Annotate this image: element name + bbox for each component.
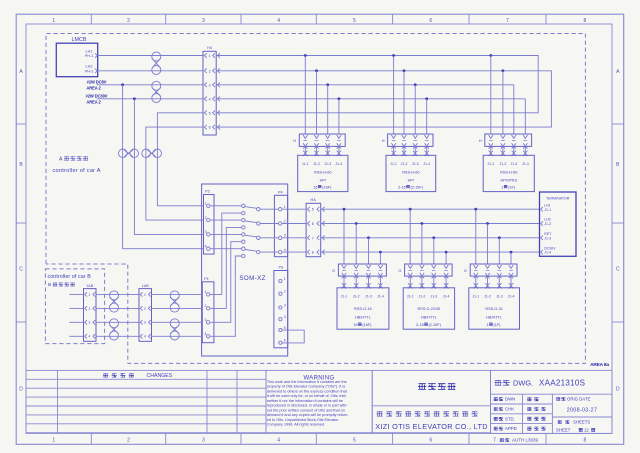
- svg-text:1: 1: [487, 323, 489, 327]
- svg-text:This work and the information: This work and the information it contain…: [267, 380, 347, 384]
- connector H group 3: [479, 134, 532, 156]
- svg-text:J1-4: J1-4: [423, 162, 430, 166]
- svg-text:property of Otis Elevator Comp: property of Otis Elevator Company ("Otis…: [267, 385, 345, 389]
- title block date and sheet cells: [556, 396, 597, 432]
- svg-text:1: 1: [284, 277, 286, 281]
- wire DC8V to H4 pin3: [97, 84, 203, 86]
- svg-text:1: 1: [284, 205, 286, 209]
- svg-text:G: G: [464, 269, 467, 273]
- drawing title cell: parallel circuit: [372, 370, 490, 432]
- wire bus LH1 (H4-1 right, wraps to H4-5): [216, 56, 538, 113]
- twisted pair car-B rows 3-4 (right): [170, 319, 179, 328]
- wire P1-1 to SW1 lower throw: [210, 213, 242, 294]
- connector G group 2: [398, 264, 452, 289]
- svg-text:P1: P1: [204, 277, 209, 281]
- dashed boundary of controller of car B: [45, 269, 104, 344]
- svg-text:3: 3: [284, 234, 286, 238]
- svg-text:7: 7: [312, 236, 314, 240]
- wire LH1 from LMCB to H4 pin1: [98, 55, 203, 57]
- svg-text:J1-1: J1-1: [341, 295, 348, 299]
- svg-text:C: C: [616, 267, 620, 273]
- svg-text:3: 3: [284, 303, 286, 307]
- block SOM-XZ: [202, 184, 288, 356]
- svg-text:1: 1: [209, 54, 211, 58]
- svg-text:J1-2: J1-2: [499, 162, 506, 166]
- svg-text:HPV/PKS: HPV/PKS: [501, 178, 518, 182]
- svg-text:G: G: [398, 269, 401, 273]
- svg-text:6: 6: [429, 438, 432, 444]
- wire H4 pin6 internal to P2-2: [146, 127, 204, 220]
- svg-text:2: 2: [209, 69, 211, 73]
- svg-text:5: 5: [312, 208, 314, 212]
- svg-text:AREA 2: AREA 2: [86, 99, 101, 104]
- label controller of car A: [53, 156, 101, 174]
- svg-text:HPI: HPI: [408, 178, 414, 182]
- wire P1-4 to SW4 lower throw: [210, 256, 242, 336]
- svg-text:SHEET: SHEET: [556, 427, 571, 432]
- svg-text:(1F): (1F): [493, 323, 501, 327]
- twisted pair DC8V/DC30V: [152, 81, 161, 90]
- svg-text:2: 2: [144, 307, 146, 311]
- twisted pair LH1/LH2: [152, 52, 161, 61]
- svg-text:3: 3: [202, 18, 205, 24]
- svg-text:LH1: LH1: [544, 203, 550, 207]
- wire lower bus row 4 HA to TERMINATOR: [321, 251, 540, 253]
- svg-text:2-15: 2-15: [398, 186, 406, 190]
- changes record table: [26, 370, 266, 432]
- connector P1: [202, 277, 214, 343]
- svg-text:7: 7: [506, 18, 509, 24]
- switch SW4 (car A / car B transfer): [210, 247, 279, 258]
- svg-text:2: 2: [284, 290, 286, 294]
- svg-text:J1-1: J1-1: [472, 295, 479, 299]
- svg-text:H: H: [293, 139, 296, 143]
- device RSS-H-60 HPI 16F hall box 1: [298, 155, 348, 191]
- svg-text:3: 3: [89, 321, 91, 325]
- svg-text:J1-3: J1-3: [430, 295, 437, 299]
- svg-text:PH-1: PH-1: [85, 54, 94, 58]
- connector 1AB (machine room side): [139, 284, 202, 341]
- connector HA: [282, 198, 321, 257]
- twisted pair on DC8V/DC30V verticals: [119, 149, 128, 158]
- svg-text:2-15: 2-15: [416, 323, 424, 327]
- svg-text:LH1: LH1: [86, 49, 93, 53]
- svg-text:C: C: [19, 267, 23, 273]
- svg-text:J1-2: J1-2: [353, 295, 360, 299]
- svg-text:6: 6: [284, 339, 286, 343]
- svg-text:J1-3: J1-3: [365, 295, 372, 299]
- svg-text:delivered to others on the exp: delivered to others on the express condi…: [267, 389, 348, 393]
- wire P1-3 to SW3 lower throw: [210, 242, 242, 323]
- svg-text:J1-2: J1-2: [401, 162, 408, 166]
- svg-text:P3: P3: [278, 265, 283, 269]
- svg-text:Company 1998. All rights rese: Company 1998. All rights reserved.: [267, 423, 325, 427]
- svg-text:1: 1: [501, 186, 503, 190]
- svg-text:4: 4: [209, 97, 211, 101]
- label #2W DC30V AREA 2: [86, 94, 108, 105]
- svg-text:P4: P4: [278, 190, 283, 194]
- connector P2: [204, 189, 215, 254]
- twisted pair car-B rows 1-2 (right): [170, 291, 179, 300]
- svg-text:4: 4: [277, 438, 280, 444]
- svg-text:2: 2: [89, 307, 91, 311]
- svg-text:D: D: [19, 387, 23, 393]
- svg-text:TERMINATOR: TERMINATOR: [546, 196, 570, 200]
- svg-text:CHANGES: CHANGES: [147, 373, 173, 379]
- svg-text:8: 8: [312, 251, 314, 255]
- svg-text:J1-4: J1-4: [508, 295, 515, 299]
- twisted pair on LH1/LH2 verticals: [142, 149, 151, 158]
- svg-text:4: 4: [284, 248, 286, 252]
- svg-text:controller of car B: controller of car B: [48, 274, 92, 280]
- block LMCB (landing/group controller): [56, 37, 97, 76]
- svg-text:2: 2: [127, 438, 130, 444]
- svg-text:reproduced or disclosed, in wh: reproduced or disclosed, in whole or in …: [267, 404, 348, 408]
- connector P3: [274, 265, 288, 348]
- svg-text:5: 5: [209, 111, 211, 115]
- svg-text:DWG.: DWG.: [513, 378, 533, 387]
- svg-text:HB/HTTL: HB/HTTL: [486, 316, 502, 320]
- svg-text:P2: P2: [205, 189, 210, 193]
- svg-text:#2W DC30V: #2W DC30V: [86, 94, 108, 99]
- svg-text:1: 1: [89, 293, 91, 297]
- jumper P3 pin5 to pin6: [282, 330, 304, 343]
- svg-text:3: 3: [202, 438, 205, 444]
- svg-text:B: B: [48, 282, 51, 288]
- svg-text:demand it and any copies will: demand it and any copies will be promptl…: [267, 413, 349, 417]
- svg-text:STD.: STD.: [505, 416, 515, 421]
- wire DC8V vertical to P2-4: [123, 85, 204, 249]
- label #2W DC8V AREA 2: [86, 80, 106, 91]
- device RSS-H-60 HPV/PKS 1F hall box 3: [483, 155, 534, 191]
- label controller of car B: [48, 274, 92, 288]
- svg-text:1AB: 1AB: [86, 284, 93, 288]
- twisted pair car-B rows 1-2 (left): [110, 291, 119, 300]
- svg-text:3: 3: [209, 83, 211, 87]
- warning notice box: [266, 370, 372, 432]
- svg-text:PH-2: PH-2: [85, 69, 94, 73]
- connector G group 1: [332, 264, 386, 289]
- svg-text:(16F): (16F): [322, 186, 332, 190]
- svg-text:4: 4: [277, 18, 280, 24]
- svg-text:(1F): (1F): [508, 186, 516, 190]
- svg-text:RSS-G-31: RSS-G-31: [485, 307, 503, 311]
- svg-text:CHK: CHK: [505, 407, 514, 412]
- svg-text:#2W DC8V: #2W DC8V: [87, 80, 107, 85]
- svg-text:RSS-G-16: RSS-G-16: [354, 307, 372, 311]
- svg-text:(2-15F): (2-15F): [411, 186, 424, 190]
- svg-text:AREA 2: AREA 2: [86, 85, 101, 90]
- svg-text:J1-3: J1-3: [496, 295, 503, 299]
- junction DC30V tap to P2-3: [133, 97, 136, 100]
- svg-text:6: 6: [209, 126, 211, 130]
- svg-text:16: 16: [353, 323, 357, 327]
- title block signature rows: [491, 394, 613, 433]
- svg-text:it will be used only for, or o: it will be used only for, or on behalf o…: [267, 394, 347, 398]
- svg-text:J1-4: J1-4: [443, 295, 450, 299]
- wire DC30V vertical to P2-3: [134, 99, 203, 235]
- svg-text:2008-03-27: 2008-03-27: [567, 408, 598, 414]
- svg-text:RSS-G-22/35: RSS-G-22/35: [417, 307, 440, 311]
- svg-text:5: 5: [284, 326, 286, 330]
- svg-text:J1-2: J1-2: [544, 222, 551, 226]
- dashed boundary of controller-of-car-A machine area: [46, 34, 585, 364]
- svg-text:G: G: [332, 269, 335, 273]
- svg-text:J1-1: J1-1: [302, 162, 309, 166]
- wire bus DC30V right: [216, 98, 525, 100]
- svg-text:LH2: LH2: [86, 65, 93, 69]
- wire DC30V to H4 pin4: [97, 98, 203, 100]
- svg-text:APPD: APPD: [505, 426, 517, 431]
- svg-text:HB/HTTL: HB/HTTL: [421, 316, 437, 320]
- svg-text:SOM-XZ: SOM-XZ: [239, 275, 265, 282]
- svg-text:1: 1: [52, 438, 55, 444]
- svg-text:6: 6: [312, 222, 314, 226]
- wire taps lower bus to connector G group 3: [474, 208, 514, 269]
- svg-text:8: 8: [583, 438, 586, 444]
- svg-text:2: 2: [284, 219, 286, 223]
- wire taps lower bus to connector G group 1: [342, 208, 383, 269]
- svg-text:16: 16: [313, 186, 317, 190]
- connector 1AB (car B side): [69, 284, 139, 341]
- device RSS-G-31 HB/HTTL 1F car box 3: [469, 288, 520, 329]
- svg-text:RSS-H-60: RSS-H-60: [402, 171, 419, 175]
- svg-text:J1-1: J1-1: [407, 295, 414, 299]
- svg-text:XAA21310S: XAA21310S: [539, 379, 585, 388]
- svg-text:8: 8: [583, 18, 586, 24]
- svg-text:4: 4: [284, 315, 286, 319]
- svg-text:6: 6: [429, 18, 432, 24]
- twisted pair car-B rows 3-4 (left): [110, 319, 119, 328]
- connector P4: [274, 190, 287, 256]
- svg-text:ORIG DATE: ORIG DATE: [567, 396, 590, 401]
- svg-text:J1-2: J1-2: [418, 295, 425, 299]
- company name XIZI OTIS: [375, 411, 488, 431]
- svg-text:2: 2: [127, 18, 130, 24]
- authorization cell AUTH L3039: [493, 438, 538, 444]
- block TERMINATOR: [540, 192, 577, 256]
- svg-text:J1-3: J1-3: [510, 162, 517, 166]
- svg-text:J1-1: J1-1: [390, 162, 397, 166]
- switch SW1 (car A / car B transfer): [210, 204, 279, 215]
- svg-text:J1-2: J1-2: [484, 295, 491, 299]
- wire P1-2 to SW2 lower throw: [210, 227, 242, 308]
- svg-text:DC30V: DC30V: [544, 246, 556, 250]
- device RSS-G-16 HB/HTTL 16F car box 1: [337, 288, 389, 329]
- svg-text:XIZI OTIS ELEVATOR CO., LTD: XIZI OTIS ELEVATOR CO., LTD: [375, 422, 488, 431]
- wire lower bus row 2 HA to TERMINATOR: [321, 223, 540, 225]
- svg-text:5: 5: [353, 438, 356, 444]
- connector H4: [203, 46, 216, 135]
- svg-text:(16F): (16F): [362, 323, 372, 327]
- connector H group 2: [382, 134, 433, 156]
- svg-text:HA: HA: [311, 198, 317, 202]
- wire H4 pin5 internal to P2-1: [157, 113, 203, 206]
- svg-text:J1-4: J1-4: [335, 162, 342, 166]
- svg-text:RSS-H-60: RSS-H-60: [314, 171, 331, 175]
- svg-text:J1-3: J1-3: [412, 162, 419, 166]
- svg-text:neither it nor the information: neither it nor the information it contai…: [267, 399, 343, 403]
- svg-text:J1-3: J1-3: [544, 236, 551, 240]
- svg-text:J1-4: J1-4: [377, 295, 384, 299]
- wire bus DC8V right: [216, 84, 514, 86]
- svg-text:LH2: LH2: [544, 218, 550, 222]
- svg-text:H4: H4: [207, 46, 212, 50]
- wire LH2 from LMCB to H4 pin2: [98, 70, 203, 72]
- svg-text:RSS-H-60: RSS-H-60: [500, 171, 517, 175]
- svg-text:3: 3: [144, 321, 146, 325]
- svg-text:HB/HTTL: HB/HTTL: [355, 316, 371, 320]
- junction DC8V tap to P2-4: [121, 83, 124, 86]
- svg-text:J1-3: J1-3: [324, 162, 331, 166]
- wire taps bus to hall connector H group 2: [391, 54, 429, 138]
- svg-text:J1-1: J1-1: [544, 208, 551, 212]
- svg-text:H: H: [382, 139, 385, 143]
- svg-text:SHEETS: SHEETS: [573, 420, 590, 425]
- wire taps lower bus to connector G group 2: [408, 208, 448, 269]
- svg-text:4: 4: [89, 335, 91, 339]
- svg-text:H: H: [479, 139, 482, 143]
- svg-text:J1-4: J1-4: [544, 251, 551, 255]
- wire lower bus row 3 HA to TERMINATOR: [321, 237, 540, 239]
- svg-text:controller of car A: controller of car A: [53, 168, 101, 174]
- device RSS-G-22/35 HB/HTTL 2-15F car box 2: [403, 288, 454, 329]
- svg-text:J1-1: J1-1: [487, 162, 494, 166]
- switch SW2 (car A / car B transfer): [210, 218, 279, 229]
- svg-text:5: 5: [353, 18, 356, 24]
- svg-text:AUTH L3039: AUTH L3039: [512, 438, 539, 443]
- svg-text:out the prior written consent: out the prior written consent of Otis an…: [267, 408, 345, 412]
- wire taps bus to hall connector H group 3: [489, 54, 528, 138]
- wire bus LH2 (H4-2 right, wraps to H4-6): [216, 71, 551, 127]
- svg-text:7: 7: [493, 438, 496, 444]
- svg-text:1: 1: [144, 293, 146, 297]
- svg-text:LMCB: LMCB: [72, 37, 87, 43]
- svg-text:AREA 8a: AREA 8a: [590, 362, 609, 368]
- svg-text:ed to Otis. Unpublished Wo: ed to Otis. Unpublished Work-Otis Elevat…: [267, 418, 339, 422]
- svg-text:12: 12: [584, 427, 589, 432]
- svg-text:A: A: [59, 156, 63, 162]
- svg-text:1AB: 1AB: [142, 284, 149, 288]
- title block drawing number DWG XAA21310S: [491, 370, 613, 433]
- svg-text:D: D: [616, 387, 620, 393]
- svg-text:J1-2: J1-2: [313, 162, 320, 166]
- svg-text:4: 4: [144, 335, 146, 339]
- switch SW3 (car A / car B transfer): [210, 233, 279, 244]
- device RSS-H-60 HPI 2-15F hall box 2: [386, 155, 436, 191]
- connector G group 3: [464, 264, 517, 289]
- svg-text:HPI: HPI: [320, 178, 326, 182]
- wire lower bus row 1 HA to TERMINATOR: [321, 208, 540, 210]
- svg-text:1: 1: [52, 18, 55, 24]
- wire taps bus to hall connector H group 1: [303, 54, 341, 138]
- svg-text:(2-15F): (2-15F): [429, 323, 442, 327]
- connector H group 1: [293, 134, 345, 156]
- svg-text:DWN: DWN: [505, 397, 515, 402]
- svg-text:J1-4: J1-4: [522, 162, 529, 166]
- svg-text:RET: RET: [544, 232, 552, 236]
